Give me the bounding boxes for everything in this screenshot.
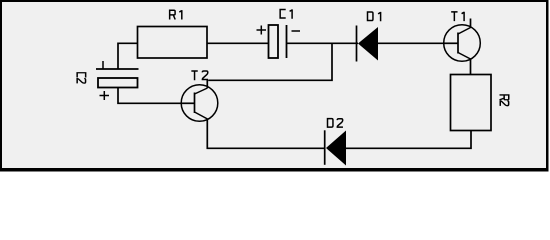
transistor T1 base bar (457, 33, 459, 54)
wire C2 bottom plate to T2 base (118, 88, 182, 104)
label T1 (451, 12, 464, 21)
transistor T1 collector diagonal (458, 28, 471, 35)
label D1 (368, 12, 381, 21)
wire D2 to R2 bottom (346, 131, 471, 149)
label R2 (rotated) (500, 95, 509, 106)
resistor R1 (138, 27, 208, 59)
background panel (0, 0, 549, 172)
diode D2 triangle (326, 131, 346, 166)
capacitor C2 top plate (96, 68, 139, 70)
wire C1 right plate to D1 (287, 42, 359, 44)
transistor T2 collector lead (206, 80, 208, 88)
border frame top (0, 0, 549, 2)
transistor T2 collector diagonal (195, 88, 208, 94)
wire D1 to T1 base (378, 42, 445, 44)
capacitor C2 plus sign (100, 91, 110, 100)
capacitor C1 right plate (286, 25, 288, 58)
border frame bottom (0, 168, 549, 172)
capacitor C1 minus sign (292, 30, 301, 32)
wire T2 emitter down to bottom rail (207, 119, 325, 148)
transistor T1 emitter diagonal (458, 53, 471, 60)
label R1 (170, 10, 182, 19)
diode D1 triangle (358, 27, 378, 61)
border frame left (0, 0, 2, 172)
wire T1 collector stub (470, 19, 472, 29)
transistor T1 body circle (444, 25, 481, 62)
resistor R2 (451, 75, 492, 131)
capacitor C1 left plate (box) (269, 25, 279, 58)
transistor T1 base lead (445, 42, 459, 44)
capacitor C2 bottom plate (box) (98, 78, 138, 88)
label C1 (280, 9, 292, 18)
transistor T2 body circle (181, 85, 218, 122)
wire R1 left to C2 top plate (118, 43, 138, 69)
capacitor C1 plus sign (257, 26, 267, 35)
label C2 (rotated) (77, 73, 86, 84)
transistor T2 base bar (194, 93, 196, 114)
label T2 (191, 71, 208, 80)
border frame right (546, 0, 549, 172)
wire R1 right to C1 (207, 42, 269, 44)
transistor T2 base lead (182, 102, 195, 104)
diode D2 cathode bar (324, 130, 326, 165)
capacitor C2 minus tick (102, 61, 104, 69)
transistor T2 emitter diagonal (195, 112, 208, 119)
wire junction from top rail down and left to T2 collector (208, 43, 332, 80)
diode D1 cathode bar (356, 26, 358, 62)
label D2 (328, 119, 343, 128)
wire T1 emitter to R2 top (470, 59, 472, 75)
